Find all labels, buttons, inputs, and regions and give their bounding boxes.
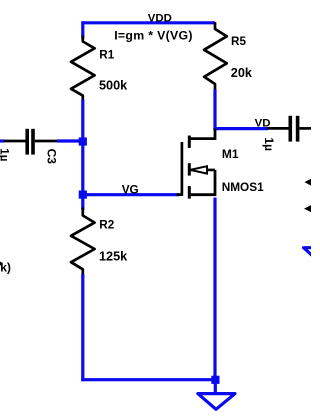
svg-text:500k: 500k: [99, 78, 128, 92]
clipped ground symbol at right edge: [304, 248, 320, 266]
clipped arrow tip right edge lower: [304, 205, 312, 213]
wire source to ground rail: [213, 198, 216, 381]
wire VDD top rail: [83, 21, 215, 24]
junction node at ground: [211, 376, 219, 384]
wire left rail (R1 to R2 through nodes): [81, 100, 84, 211]
svg-text:k): k): [0, 260, 11, 274]
body arrow head: [190, 166, 207, 173]
channel segment body: [188, 163, 191, 175]
wire VD: [213, 127, 268, 130]
gate pin stub: [177, 193, 183, 196]
svg-text:C3: C3: [45, 149, 59, 165]
svg-text:125k: 125k: [99, 250, 128, 264]
svg-text:NMOS1: NMOS1: [222, 180, 264, 194]
drain connection: [188, 137, 215, 140]
clipped arrow tip right edge upper: [305, 178, 313, 186]
svg-text:20k: 20k: [231, 66, 253, 80]
svg-text:M1: M1: [222, 147, 239, 161]
source connection: [214, 170, 217, 196]
wire right rail (R5 to VD node): [213, 90, 216, 131]
wire left rail upper (VDD to R1): [81, 21, 84, 38]
wire C3 left stub (clipped at edge): [0, 139, 5, 142]
gate bar: [181, 142, 184, 196]
resistor R5: [204, 24, 227, 91]
wire left rail lower (R2 to bottom): [81, 274, 84, 381]
svg-text:1µ: 1µ: [262, 137, 276, 151]
body arrow line: [191, 169, 215, 172]
svg-text:I=gm * V(VG): I=gm * V(VG): [114, 28, 193, 42]
channel segment source: [188, 186, 191, 199]
clipped glyph sliver before k): [0, 262, 1, 266]
capacitor C3: [4, 129, 58, 155]
wire ground stub: [214, 380, 217, 393]
svg-text:VDD: VDD: [148, 13, 172, 25]
capacitor C2 (output, clipped at right edge): [268, 116, 312, 142]
junction node at C3/R1: [79, 137, 87, 145]
channel segment drain: [188, 136, 191, 148]
svg-text:1µ: 1µ: [0, 148, 9, 161]
junction node at VG: [79, 191, 87, 199]
transistor M1 (NMOS): [177, 129, 215, 199]
svg-text:R1: R1: [99, 49, 114, 62]
wire C3 to node: [57, 139, 83, 142]
wire VG (node to gate): [83, 193, 180, 196]
svg-text:VG: VG: [122, 182, 139, 196]
wire bottom rail: [81, 378, 215, 381]
resistor R1: [71, 37, 95, 101]
ground: [198, 394, 235, 410]
svg-text:R2: R2: [99, 218, 114, 231]
resistor R2: [71, 209, 95, 276]
svg-text:R5: R5: [231, 35, 246, 48]
